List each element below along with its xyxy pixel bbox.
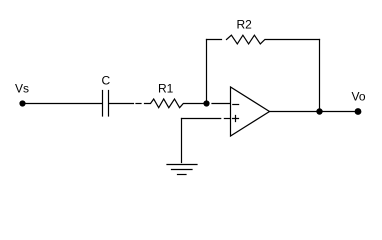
ground symbol middle bar bbox=[172, 169, 193, 171]
op-amp U1 inverting pin minus sign bbox=[233, 104, 239, 106]
wire output junction to Vo bbox=[323, 111, 355, 113]
wire op-amp output bbox=[270, 111, 317, 113]
node B output junction dot bbox=[316, 108, 322, 114]
wire ground to op-amp non-inverting input bbox=[182, 118, 221, 120]
wire stub at non-inverting input bbox=[224, 118, 230, 120]
op-amp U1 non-inverting pin plus sign bbox=[233, 116, 239, 122]
wire feedback down to output bbox=[319, 40, 321, 112]
wire Vs to capacitor C bbox=[26, 103, 102, 105]
svg-text:Vo: Vo bbox=[352, 90, 366, 104]
ground symbol top bar bbox=[167, 164, 197, 166]
wire feedback riser from node A bbox=[206, 40, 208, 101]
resistor R1 zigzag body bbox=[145, 99, 204, 108]
node Vs terminal dot bbox=[19, 100, 25, 106]
svg-text:R2: R2 bbox=[237, 17, 253, 31]
ground symbol bottom bar bbox=[178, 174, 187, 176]
wire stub before R1 bbox=[136, 103, 141, 105]
op-amp U1 triangle bbox=[231, 87, 270, 136]
capacitor C left plate bbox=[102, 91, 104, 117]
wire node A to op-amp inverting input bbox=[212, 103, 230, 105]
wire capacitor C to resistor R1 bbox=[109, 103, 134, 105]
svg-text:R1: R1 bbox=[158, 82, 174, 96]
wire feedback top left segment bbox=[207, 39, 222, 41]
svg-text:C: C bbox=[102, 74, 111, 88]
capacitor C right plate bbox=[108, 91, 110, 117]
node A inverting-input junction dot bbox=[203, 100, 209, 106]
svg-text:Vs: Vs bbox=[15, 81, 29, 95]
resistor R2 zigzag body bbox=[227, 35, 320, 44]
ground wire riser bbox=[181, 119, 183, 163]
node Vo terminal dot bbox=[355, 108, 362, 115]
